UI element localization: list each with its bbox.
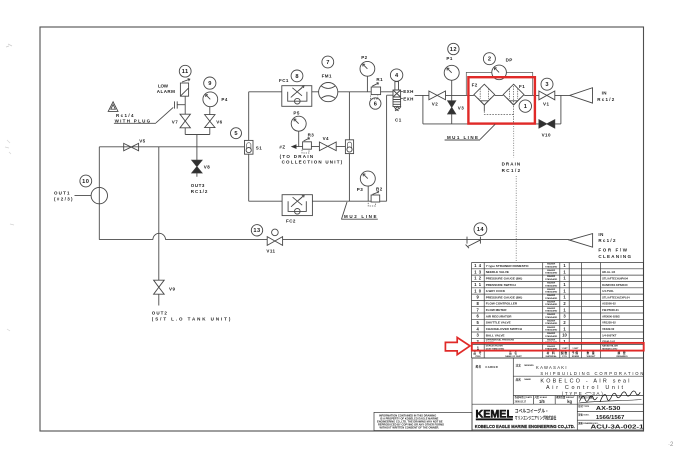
svg-text:5: 5 <box>477 320 480 325</box>
svg-text:DRAIN: DRAIN <box>502 161 521 166</box>
svg-text:RC1/2: RC1/2 <box>502 168 521 173</box>
svg-text:STANDARD: STANDARD <box>545 284 558 287</box>
svg-text:FW-P5000-01: FW-P5000-01 <box>602 308 619 312</box>
svg-text:BALL VALVE: BALL VALVE <box>486 333 505 337</box>
svg-text:摘 要: 摘 要 <box>616 351 626 355</box>
svg-text:MESSRS: MESSRS <box>524 365 534 367</box>
port EXH lower <box>401 96 414 101</box>
svg-text:DIFFERENTIAL PRESSURE: DIFFERENTIAL PRESSURE <box>486 338 515 341</box>
svg-text:8: 8 <box>295 74 298 80</box>
node DRAIN label <box>502 161 521 173</box>
title block date scale row <box>515 395 594 404</box>
svg-text:COLLECTION UNIT): COLLECTION UNIT) <box>282 160 343 165</box>
wire S2 drop line <box>348 92 350 201</box>
balloon 4 <box>390 69 402 81</box>
svg-text:MAKER: MAKER <box>547 320 555 323</box>
svg-text:CARIER: CARIER <box>485 365 498 369</box>
strainer item14 <box>466 237 481 249</box>
wire V7 V6 manifold <box>185 96 210 177</box>
node OUT3 label <box>191 183 208 194</box>
svg-text:(#2/3): (#2/3) <box>54 197 73 202</box>
svg-text:FOR F/W: FOR F/W <box>598 247 627 252</box>
svg-text:1 4: 1 4 <box>474 263 481 268</box>
svg-text:MAKER: MAKER <box>547 338 555 341</box>
svg-text:FLOW CONTROLLER: FLOW CONTROLLER <box>486 302 518 306</box>
svg-text:MAKER: MAKER <box>547 275 555 278</box>
svg-text:KOBELCO EAGLE MARINE ENGINEERI: KOBELCO EAGLE MARINE ENGINEERING CO.,LTD… <box>475 424 575 429</box>
svg-text:R2: R2 <box>376 187 383 192</box>
svg-text:1 1: 1 1 <box>474 282 481 287</box>
svg-text:NEEDLE VALVE: NEEDLE VALVE <box>486 270 509 274</box>
border frame <box>40 27 644 431</box>
node OUT1 connection circle <box>54 187 108 203</box>
svg-text:Y type STRAINER DOMESTIC: Y type STRAINER DOMESTIC <box>486 264 530 268</box>
balloon 2 <box>483 53 495 65</box>
svg-text:NAME: NAME <box>524 378 531 381</box>
svg-text:WITHOUT WRITTEN CONSENT OF THE: WITHOUT WRITTEN CONSENT OF THE OWNER. <box>380 425 440 429</box>
svg-text:HD-AL-1/4: HD-AL-1/4 <box>602 270 615 274</box>
title block number cells <box>577 404 643 430</box>
warning triangle Rc1/4 <box>108 102 156 124</box>
svg-text:MAKER: MAKER <box>547 313 555 316</box>
svg-text:FM1: FM1 <box>322 73 332 78</box>
svg-text:V4: V4 <box>323 136 329 141</box>
svg-text:1 SET: 1 SET <box>572 348 579 350</box>
svg-text:F2: F2 <box>472 83 478 88</box>
balloon 6 <box>370 98 381 109</box>
svg-text:STANDARD: STANDARD <box>545 335 558 338</box>
pressure switch LOW ALARM <box>157 79 190 97</box>
svg-text:P5: P5 <box>293 110 299 115</box>
table header row <box>473 351 628 358</box>
svg-text:予備: 予備 <box>572 351 579 355</box>
svg-text:RC1/2: RC1/2 <box>191 189 208 194</box>
svg-text:V10: V10 <box>542 133 551 138</box>
regulator R2 <box>368 187 382 206</box>
gauge P5 <box>291 110 306 146</box>
svg-text:VR1220-02: VR1220-02 <box>602 321 616 325</box>
wire drain dotted to table <box>514 124 517 262</box>
svg-text:マリンエンジニアリング株式会社: マリンエンジニアリング株式会社 <box>515 414 557 421</box>
balloon 11 <box>179 65 191 77</box>
svg-text:SHUTTLE VALVE: SHUTTLE VALVE <box>486 321 511 325</box>
svg-text:MAKER: MAKER <box>547 294 555 297</box>
wire S1 riser and dropper <box>248 92 250 201</box>
wire S1 feed line y147 <box>99 146 244 148</box>
svg-text:1/5: 1/5 <box>539 399 545 404</box>
gauge DP <box>492 57 513 79</box>
wire bypass loop V2V3 <box>423 95 561 124</box>
valve V1 <box>539 91 555 107</box>
funnel IN Rc1/2 FW cleaning <box>570 232 632 259</box>
proprietary notes box <box>374 412 472 430</box>
svg-text:1 0: 1 0 <box>474 288 481 293</box>
balloon 13 <box>251 225 262 236</box>
svg-text:3-WAY COCK: 3-WAY COCK <box>486 289 506 293</box>
parts list table grid <box>472 263 644 359</box>
svg-text:STANDARD: STANDARD <box>545 303 558 306</box>
svg-text:STANDARD: STANDARD <box>545 291 558 294</box>
svg-text:MU1 LINE: MU1 LINE <box>447 135 479 140</box>
svg-text:DUPLEX FILTER: DUPLEX FILTER <box>486 346 503 348</box>
svg-text:R3: R3 <box>308 132 315 137</box>
svg-text:STL/AFTECH.NPA04: STL/AFTECH.NPA04 <box>602 276 628 280</box>
svg-text:4: 4 <box>477 326 480 331</box>
svg-text:LOW: LOW <box>158 83 169 88</box>
svg-text:1 SET: 1 SET <box>561 348 568 350</box>
svg-text:MAKER: MAKER <box>547 288 555 291</box>
svg-text:12: 12 <box>450 47 457 53</box>
valve V4 <box>319 136 336 150</box>
svg-text:V3: V3 <box>458 105 464 110</box>
svg-text:OUT3: OUT3 <box>191 183 205 188</box>
svg-text:10: 10 <box>82 179 89 185</box>
svg-text:S1: S1 <box>256 146 262 151</box>
svg-text:STANDARD: STANDARD <box>545 310 558 313</box>
flow meter FM1 <box>319 73 338 101</box>
svg-text:11: 11 <box>182 69 189 75</box>
svg-text:MAKER: MAKER <box>547 282 555 285</box>
svg-text:6: 6 <box>477 314 480 319</box>
flow controller FC2 <box>282 195 312 224</box>
svg-text:C1: C1 <box>395 117 402 122</box>
svg-text:13: 13 <box>253 228 260 234</box>
svg-text:F1: F1 <box>519 84 525 89</box>
red highlight box duplex filter <box>468 77 535 123</box>
svg-text:7: 7 <box>477 307 480 312</box>
svg-text:7: 7 <box>326 60 329 66</box>
svg-text:·2: ·2 <box>668 442 674 448</box>
svg-text:EXH: EXH <box>403 96 414 101</box>
svg-text:9: 9 <box>208 81 211 87</box>
balloon 10 <box>80 175 92 187</box>
title block owner row <box>516 363 644 376</box>
svg-text:1566/1567: 1566/1567 <box>596 415 625 421</box>
svg-text:(S/T L.O TANK UNIT): (S/T L.O TANK UNIT) <box>152 317 231 322</box>
funnel IN Rc1/2 top <box>570 88 615 103</box>
svg-text:KAWASAKI: KAWASAKI <box>536 365 567 370</box>
svg-text:STANDARD: STANDARD <box>545 297 558 300</box>
valve V9 <box>154 280 176 294</box>
svg-text:コベルコイーグル・: コベルコイーグル・ <box>515 407 549 414</box>
svg-text:kg: kg <box>567 399 572 404</box>
wire top main line y91.8 <box>249 91 393 93</box>
svg-text:DP: DP <box>506 57 513 62</box>
svg-text:ALARM: ALARM <box>157 89 176 94</box>
svg-text:10: 10 <box>562 333 567 338</box>
svg-text:V5: V5 <box>139 139 145 144</box>
shuttle valve S2 <box>345 140 353 154</box>
balloon 14 <box>474 223 487 236</box>
svg-text:STL/AFTECH.EXPL04: STL/AFTECH.EXPL04 <box>602 295 630 299</box>
svg-text:CLEANING: CLEANING <box>598 254 631 259</box>
svg-text:STANDARD: STANDARD <box>545 329 558 332</box>
svg-text:P3: P3 <box>357 187 363 192</box>
regulator R3 <box>302 132 314 153</box>
svg-text:FLOW METER: FLOW METER <box>486 308 508 312</box>
svg-text:NAKAKITA-AIR: NAKAKITA-AIR <box>602 345 618 348</box>
svg-text:1/4-TVOL: 1/4-TVOL <box>602 289 614 293</box>
balloon 3 <box>541 78 553 90</box>
wire filter drain dashed <box>484 111 513 114</box>
parts list table rows text <box>474 263 630 345</box>
node Z drain arrow <box>279 145 342 165</box>
parts row item1 duplex filter <box>477 345 619 351</box>
svg-text:MAKER: MAKER <box>547 326 555 329</box>
valve V5 <box>124 139 146 151</box>
plug tap symbol <box>156 101 185 123</box>
node OUT2 label <box>152 311 231 322</box>
svg-text:MAKER: MAKER <box>547 345 555 348</box>
wire drain tap line <box>292 146 346 148</box>
svg-text:1/4-500TKT: 1/4-500TKT <box>602 333 617 337</box>
svg-text:#Z: #Z <box>279 145 285 150</box>
svg-text:VK332-02: VK332-02 <box>602 327 615 331</box>
svg-text:EXH: EXH <box>403 89 414 94</box>
svg-text:14: 14 <box>477 227 485 233</box>
svg-text:FC2: FC2 <box>286 218 296 223</box>
flow controller FC1 <box>279 78 312 106</box>
svg-text:PRESSURE SWITCH: PRESSURE SWITCH <box>486 283 517 287</box>
balloon 9 <box>204 77 216 89</box>
valve V3 <box>448 101 465 124</box>
svg-text:MAKER: MAKER <box>547 301 555 304</box>
svg-text:STANDARD: STANDARD <box>545 265 558 268</box>
svg-text:船名: 船名 <box>476 365 482 369</box>
gauge P4 <box>203 92 228 107</box>
wire bottom MU2 line y201.2 <box>249 95 393 201</box>
svg-text:9: 9 <box>477 295 480 300</box>
svg-text:STANDARD: STANDARD <box>545 278 558 281</box>
svg-text:注文: 注文 <box>516 363 522 367</box>
wire left loop vertical OUT1 line <box>98 147 100 240</box>
svg-text:IN: IN <box>598 232 603 237</box>
wire crossover bump <box>153 233 166 239</box>
svg-text:CHANGE-OVER SWITCH: CHANGE-OVER SWITCH <box>486 327 523 331</box>
svg-text:材 料: 材 料 <box>546 351 556 355</box>
svg-text:MAKER: MAKER <box>547 269 555 272</box>
balloon 8 <box>291 70 303 82</box>
svg-text:PRESSURE GAUGE (BK): PRESSURE GAUGE (BK) <box>486 295 523 299</box>
svg-text:AS2500-02: AS2500-02 <box>602 302 616 306</box>
svg-text:重 量: 重 量 <box>586 351 595 355</box>
svg-text:品 名: 品 名 <box>509 351 518 355</box>
svg-text:3: 3 <box>477 333 480 338</box>
svg-text:Rc1/2: Rc1/2 <box>598 238 616 243</box>
red row highlight <box>472 343 644 351</box>
svg-text:個数: 個数 <box>560 351 568 355</box>
gauge P1 <box>444 56 459 101</box>
svg-text:ACU-3A-002-1: ACU-3A-002-1 <box>591 424 644 430</box>
red pointer arrow <box>445 338 470 355</box>
valve V6 <box>205 115 223 128</box>
title block carrier cell <box>476 365 499 369</box>
svg-text:品 号: 品 号 <box>473 351 482 355</box>
shuttle valve S1 <box>245 140 263 154</box>
svg-text:DANFOSS KPS3100: DANFOSS KPS3100 <box>602 283 628 287</box>
regulator R1 <box>370 77 383 99</box>
svg-text:品名: 品名 <box>516 377 522 381</box>
wire V9 branch vertical <box>158 147 160 306</box>
svg-text:8: 8 <box>477 301 480 306</box>
valve V7 <box>172 114 191 128</box>
balloon 5 <box>231 128 242 139</box>
svg-text:OUT1: OUT1 <box>54 190 70 195</box>
gauge P2 <box>360 55 375 92</box>
label MU2 LINE <box>341 202 378 219</box>
svg-text:2: 2 <box>488 57 491 63</box>
svg-text:1: 1 <box>524 104 527 110</box>
svg-text:3: 3 <box>545 82 548 88</box>
gauge P3 <box>357 171 376 201</box>
svg-text:PRESSURE GAUGE (BK): PRESSURE GAUGE (BK) <box>486 276 523 280</box>
svg-text:AX-530: AX-530 <box>596 406 621 412</box>
svg-text:P1: P1 <box>446 56 452 61</box>
svg-text:1 2: 1 2 <box>474 276 481 281</box>
balloon 1 <box>519 100 531 112</box>
signatures <box>579 391 642 403</box>
svg-text:V9: V9 <box>169 287 175 292</box>
KEMEL logo <box>475 407 575 429</box>
svg-text:AIR REGURATOR: AIR REGURATOR <box>486 314 513 318</box>
svg-text:1 3: 1 3 <box>474 269 481 274</box>
svg-text:MU2 LINE: MU2 LINE <box>344 214 377 219</box>
svg-text:5: 5 <box>234 131 237 137</box>
svg-text:V11: V11 <box>266 249 275 254</box>
filter F1 <box>503 84 525 124</box>
change-over switch C1 <box>393 82 402 123</box>
svg-text:WITH PLUG: WITH PLUG <box>115 118 151 123</box>
svg-text:V2: V2 <box>432 101 438 106</box>
svg-text:Rc1/2: Rc1/2 <box>597 97 615 102</box>
svg-text:V6: V6 <box>216 120 222 125</box>
svg-text:R1: R1 <box>376 77 383 82</box>
title block grid <box>472 358 644 430</box>
title block name row <box>516 377 630 395</box>
wire C1 to filters supply line y95.4 <box>415 94 570 96</box>
svg-text:6: 6 <box>374 101 377 107</box>
wire bottom header line y239.6 <box>99 239 569 241</box>
svg-text:FC1: FC1 <box>279 78 289 83</box>
label MU1 LINE <box>445 124 496 140</box>
svg-text:MAKER: MAKER <box>547 263 555 266</box>
svg-text:IN: IN <box>602 91 607 96</box>
valve V8 <box>192 160 211 173</box>
svg-text:P2: P2 <box>361 55 367 60</box>
balloon 12 <box>448 43 459 54</box>
svg-text:AR3000-02BG: AR3000-02BG <box>602 314 620 318</box>
svg-text:V7: V7 <box>172 119 178 124</box>
svg-text:MAKER: MAKER <box>547 332 555 335</box>
svg-text:(TO DRAIN: (TO DRAIN <box>280 154 314 159</box>
svg-text:2008.02.17: 2008.02.17 <box>515 401 527 403</box>
valve V11 with knob <box>266 229 282 254</box>
wire DP sensing loop <box>466 72 532 95</box>
svg-text:MAKER: MAKER <box>547 307 555 310</box>
svg-text:V1: V1 <box>543 102 549 107</box>
svg-text:STANDARD: STANDARD <box>545 322 558 325</box>
valve V2 <box>429 91 446 106</box>
svg-text:V8: V8 <box>204 165 210 170</box>
port EXH upper <box>401 89 414 94</box>
svg-text:OUT2: OUT2 <box>152 311 168 316</box>
svg-text:P4: P4 <box>221 97 227 102</box>
valve V10 <box>539 120 555 138</box>
svg-text:STANDARD: STANDARD <box>545 272 558 275</box>
filter F2 <box>472 83 495 112</box>
balloon 7 <box>322 56 334 68</box>
svg-text:STANDARD: STANDARD <box>545 316 558 319</box>
